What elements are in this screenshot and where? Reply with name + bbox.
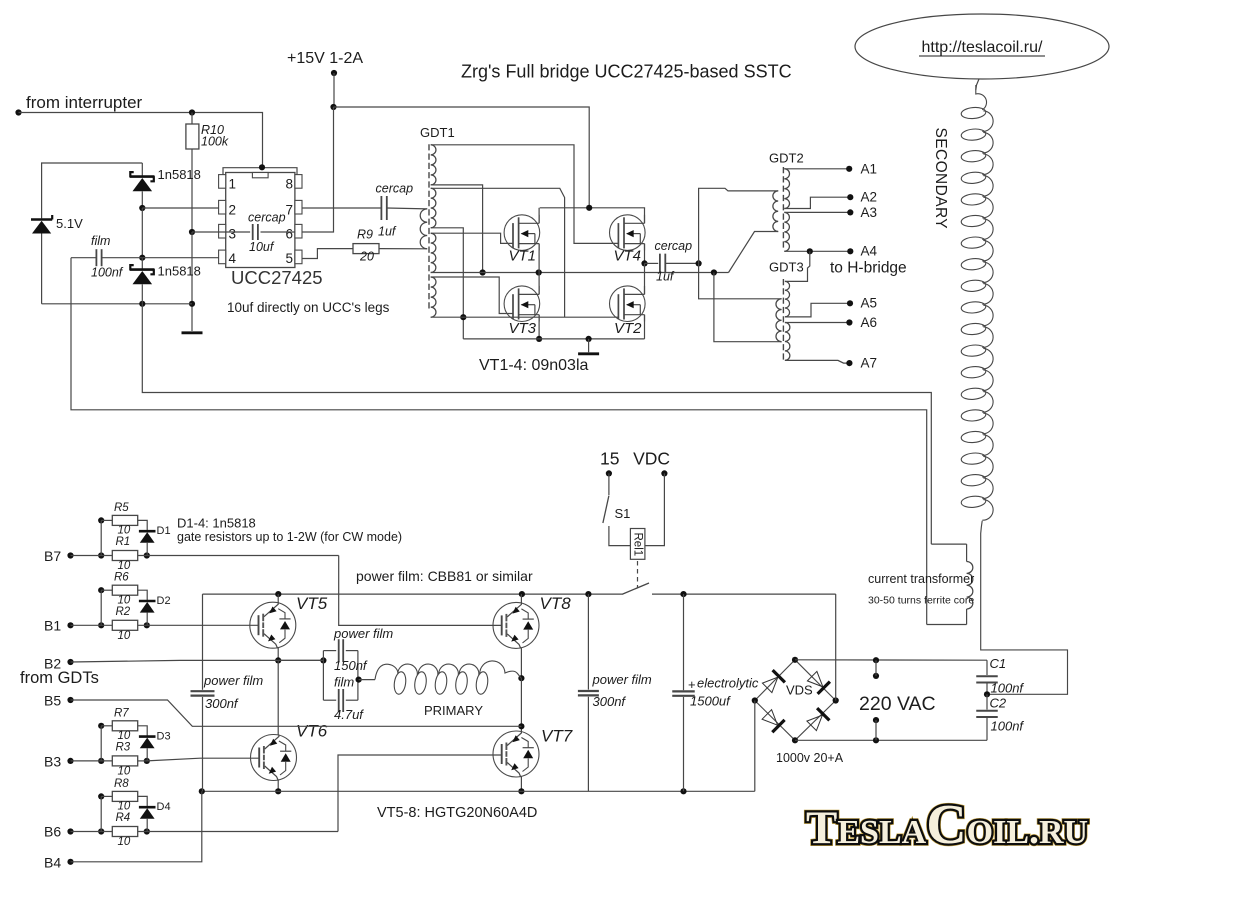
wire B2 row xyxy=(71,660,324,662)
wire W1 bottom xyxy=(431,185,483,273)
label UCC27425 xyxy=(231,267,323,288)
svg-text:100nf: 100nf xyxy=(991,681,1025,696)
node VT6 emitter rail xyxy=(275,788,281,794)
node diode-string bottom xyxy=(139,301,145,307)
node 15V right xyxy=(661,470,667,476)
svg-text:B6: B6 xyxy=(44,824,61,840)
svg-text:S1: S1 xyxy=(615,506,631,521)
switch S1 xyxy=(603,473,631,545)
node electrolytic top xyxy=(680,591,686,597)
svg-text:10: 10 xyxy=(118,801,131,813)
capacitor cercap 10uf internal xyxy=(226,224,295,240)
node A3 xyxy=(847,209,853,215)
diode 1n5818 upper xyxy=(130,163,155,208)
label B4 xyxy=(44,855,61,871)
capacitor cercap 1uf bridge xyxy=(645,254,699,274)
wire zener bottom row xyxy=(42,303,192,305)
transformer GDT2 core xyxy=(782,167,784,251)
transformer GDT2 sec W2 xyxy=(784,212,789,251)
wire VT8 collector xyxy=(520,594,522,603)
inductor PRIMARY xyxy=(375,661,521,695)
node +15V terminal xyxy=(331,70,337,76)
relay Rel1 box xyxy=(630,529,645,560)
svg-text:10: 10 xyxy=(118,836,131,848)
wire relay dashed xyxy=(637,561,639,588)
label cercap pin7 xyxy=(376,182,414,196)
wire VDS right up xyxy=(835,594,837,700)
label R10 xyxy=(201,123,224,137)
svg-text:GDT3: GDT3 xyxy=(769,260,804,275)
label A7 xyxy=(861,356,878,371)
svg-text:VT5-8: HGTG20N60A4D: VT5-8: HGTG20N60A4D xyxy=(377,805,537,821)
label VT2 xyxy=(614,320,642,337)
label 100nf C2 xyxy=(991,719,1025,734)
node ground tap xyxy=(586,336,592,342)
node +15V junction xyxy=(330,104,336,110)
label VT4 xyxy=(614,248,642,265)
svg-text:PRIMARY: PRIMARY xyxy=(424,703,483,718)
label 300nf left xyxy=(205,696,239,711)
node 15V left xyxy=(606,470,612,476)
node electrolytic bottom xyxy=(680,788,686,794)
wire A5 xyxy=(785,303,850,317)
wire pin2 row xyxy=(142,207,219,209)
node powerfilm top xyxy=(585,591,591,597)
wire phase to box xyxy=(278,659,323,661)
svg-text:A3: A3 xyxy=(861,205,878,220)
wire VT6 emitter xyxy=(277,780,279,791)
svg-text:R1: R1 xyxy=(116,536,131,548)
svg-text:B4: B4 xyxy=(44,855,61,871)
node AC bot a xyxy=(873,737,879,743)
svg-text:A7: A7 xyxy=(861,356,878,371)
transistor Q VT6 xyxy=(251,735,297,781)
svg-text:10: 10 xyxy=(118,560,131,572)
ground bridge xyxy=(578,352,599,355)
wire W3 top to VT1 gate xyxy=(431,233,514,243)
node ground row junction xyxy=(189,301,195,307)
wire CT upper feedback xyxy=(142,304,931,544)
label http teslacoil xyxy=(919,39,1045,56)
label GDT1 xyxy=(420,125,455,140)
wire cercap to GDT3 primary top xyxy=(699,263,782,298)
wire VT4 source to cercap xyxy=(644,244,646,264)
svg-text:3: 3 xyxy=(229,227,237,242)
resistor group R6 R2 diode D2 xyxy=(98,572,170,642)
node VT1 source xyxy=(536,269,542,275)
wire DC+ rail left xyxy=(203,593,624,595)
svg-text:+: + xyxy=(688,677,696,692)
node B5 xyxy=(67,697,73,703)
svg-text:1000v 20+A: 1000v 20+A xyxy=(776,751,844,765)
label 300nf right xyxy=(593,694,627,709)
wire pin5 jog xyxy=(302,249,353,259)
wire CT right bottom xyxy=(966,609,968,625)
label from interrupter xyxy=(26,93,143,112)
label VT7 xyxy=(541,727,573,746)
label 100k xyxy=(201,135,229,149)
label 1n5818 lower xyxy=(158,264,201,279)
label from GDTs xyxy=(20,669,99,687)
node R10 top junction xyxy=(189,109,195,115)
wire A6 xyxy=(785,322,850,324)
ground near UCC xyxy=(182,331,203,334)
svg-text:100nf: 100nf xyxy=(991,719,1025,734)
wire CT right top xyxy=(966,544,968,561)
label plus xyxy=(688,677,696,692)
diode 1n5818 lower xyxy=(130,258,155,304)
transformer GDT1 sec W2 xyxy=(431,188,436,228)
svg-text:D3: D3 xyxy=(157,730,171,742)
svg-text:cercap: cercap xyxy=(248,210,286,224)
wire DC- rail xyxy=(202,790,755,792)
svg-text:power film: power film xyxy=(592,672,652,687)
wire CT bottom edge xyxy=(927,624,967,626)
node DC- left xyxy=(199,788,205,794)
resistor group R8 R4 diode D4 xyxy=(98,778,170,848)
svg-text:B7: B7 xyxy=(44,548,61,564)
diode bridge VDS xyxy=(755,660,836,741)
svg-text:cercap: cercap xyxy=(376,182,414,196)
wire W2 top xyxy=(431,188,565,317)
label VT1-4 09n03la xyxy=(479,357,589,374)
svg-text:R6: R6 xyxy=(114,572,129,584)
note 10uf directly xyxy=(227,300,390,315)
wire AC top rail xyxy=(795,659,987,661)
svg-text:C1: C1 xyxy=(990,656,1007,671)
wire ground stub xyxy=(588,339,590,352)
svg-text:A6: A6 xyxy=(861,315,878,330)
svg-text:1uf: 1uf xyxy=(656,270,675,284)
label GDT2 xyxy=(769,151,804,166)
transformer GDT3 primary xyxy=(776,299,782,342)
label 100nf xyxy=(91,266,124,280)
label VDS xyxy=(786,683,813,698)
label 15 VDC xyxy=(600,449,670,469)
svg-text:VDS: VDS xyxy=(786,683,813,698)
svg-text:1uf: 1uf xyxy=(378,225,397,239)
node A4 junction xyxy=(807,248,813,254)
svg-text:B5: B5 xyxy=(44,693,61,709)
label current transformer xyxy=(868,572,974,586)
svg-text:VT1-4: 09n03la: VT1-4: 09n03la xyxy=(479,357,589,374)
label 1uf pin7 xyxy=(378,225,397,239)
wire A3 xyxy=(784,211,850,213)
wire DC+ rail right xyxy=(652,593,836,595)
wire from interrupter to UCC top xyxy=(19,113,263,168)
wire right leg mid xyxy=(520,678,522,731)
label A2 xyxy=(861,190,878,205)
label B7 xyxy=(44,548,61,564)
svg-text:R2: R2 xyxy=(116,606,131,618)
pin numbers 1-8 xyxy=(229,177,294,266)
label cercap internal xyxy=(248,210,286,224)
node bridge +15 tap xyxy=(586,205,592,211)
wire W4 bottom to VT2 gate xyxy=(431,316,619,318)
label VT5-8 HGTG xyxy=(377,805,537,821)
svg-text:10uf: 10uf xyxy=(249,240,275,254)
transistor Q VT7 xyxy=(493,731,539,777)
wire W2 bottom xyxy=(431,228,464,339)
svg-text:from GDTs: from GDTs xyxy=(20,669,99,687)
wire W1 top to VT4 gate xyxy=(431,145,619,244)
label VT6 xyxy=(296,722,328,741)
wire A2 xyxy=(784,197,850,208)
svg-text:power film: power film xyxy=(333,626,393,641)
label turns ferrite xyxy=(868,595,974,607)
label cercap bridge xyxy=(655,239,693,253)
svg-text:R9: R9 xyxy=(357,228,373,242)
svg-text:A5: A5 xyxy=(861,296,878,311)
wire A7 xyxy=(785,360,850,363)
svg-text:10: 10 xyxy=(118,730,131,742)
svg-text:GDT1: GDT1 xyxy=(420,125,455,140)
transistor Q VT5 xyxy=(250,602,296,648)
wire A1 xyxy=(784,168,849,170)
svg-text:D4: D4 xyxy=(157,801,171,813)
wire B3 row xyxy=(71,758,260,761)
wire tap to GDT3 primary bottom xyxy=(714,273,782,342)
svg-text:VT6: VT6 xyxy=(296,722,328,741)
note gate resistors xyxy=(177,530,402,544)
node phase right primary xyxy=(518,675,524,681)
svg-text:10uf directly on UCC's legs: 10uf directly on UCC's legs xyxy=(227,300,390,315)
wire B4 row xyxy=(71,791,202,862)
svg-text:GDT2: GDT2 xyxy=(769,151,804,166)
label power film left xyxy=(203,673,263,688)
svg-text:Zrg's Full bridge UCC27425-bas: Zrg's Full bridge UCC27425-based SSTC xyxy=(461,62,792,82)
resistor group R5 R1 diode D1 xyxy=(98,502,170,572)
label 4.7uf xyxy=(334,707,364,722)
wire B6 row xyxy=(71,831,339,833)
wire secondary bottom xyxy=(981,521,1068,695)
node pin2 junction xyxy=(139,205,145,211)
svg-text:4.7uf: 4.7uf xyxy=(334,707,364,722)
svg-text:C2: C2 xyxy=(990,696,1007,711)
transistor Q VT8 xyxy=(493,602,539,648)
svg-text:R7: R7 xyxy=(114,707,129,719)
note D1-4 1n5818 xyxy=(177,516,256,531)
svg-text:6: 6 xyxy=(286,227,294,242)
node B6 xyxy=(67,828,73,834)
node phase left xyxy=(275,657,281,663)
capacitor C2 xyxy=(976,694,998,740)
transistor Q VT1 xyxy=(504,215,540,251)
wire B5 row xyxy=(71,700,522,726)
label B2 xyxy=(44,656,61,672)
label C2 xyxy=(990,696,1007,711)
node GDT3 tap xyxy=(711,269,717,275)
label to H-bridge xyxy=(830,260,907,277)
node B4 xyxy=(67,859,73,865)
svg-text:to H-bridge: to H-bridge xyxy=(830,260,907,277)
svg-text:D1: D1 xyxy=(157,525,171,537)
label 150nf xyxy=(334,658,368,673)
wire pin7 row xyxy=(302,207,381,209)
label VT5 xyxy=(296,594,328,613)
label VT1 xyxy=(509,248,537,265)
node box left xyxy=(320,657,326,663)
svg-text:10: 10 xyxy=(118,594,131,606)
svg-text:gate resistors up to 1-2W (for: gate resistors up to 1-2W (for CW mode) xyxy=(177,530,402,544)
wire CT lower feedback xyxy=(71,258,927,625)
svg-text:cercap: cercap xyxy=(655,239,693,253)
label 1n5818 upper xyxy=(158,167,201,182)
label 1uf bridge xyxy=(656,270,675,284)
wire AC top pair xyxy=(875,660,877,676)
svg-text:300nf: 300nf xyxy=(205,696,239,711)
svg-text:R3: R3 xyxy=(116,741,131,753)
transformer GDT2 sec W1 xyxy=(784,169,789,209)
node AC top a xyxy=(873,657,879,663)
label power film right xyxy=(592,672,652,687)
wire VT8 emitter xyxy=(520,648,522,678)
label VT8 xyxy=(540,594,572,613)
wire +15V rail to bridge xyxy=(334,107,590,208)
svg-text:5: 5 xyxy=(286,251,294,266)
wire mid rail diagonal to GDT2 primary bottom xyxy=(729,232,779,273)
wire W4 top to VT3 gate xyxy=(431,277,514,314)
node A7 xyxy=(846,360,852,366)
label SECONDARY xyxy=(932,128,949,230)
svg-text:power film: CBB81 or similar: power film: CBB81 or similar xyxy=(356,568,533,584)
svg-text:D2: D2 xyxy=(157,595,171,607)
label B1 xyxy=(44,618,61,634)
svg-text:1n5818: 1n5818 xyxy=(158,264,201,279)
svg-text:VT2: VT2 xyxy=(614,320,642,337)
label power film box xyxy=(333,626,393,641)
svg-text:20: 20 xyxy=(359,250,374,264)
node VT4 source xyxy=(641,260,647,266)
wire B7 row xyxy=(71,555,339,557)
svg-text:150nf: 150nf xyxy=(334,658,368,673)
node VDS left xyxy=(752,697,758,703)
label A4 xyxy=(861,244,878,259)
transformer GDT3 sec W1 xyxy=(785,281,790,317)
transformer GDT1 sec W4 xyxy=(431,277,436,317)
op-amp U1 UCC27425 body xyxy=(219,168,302,268)
node pin3 junction xyxy=(189,229,195,235)
wire A4 xyxy=(784,250,850,252)
capacitor 150nf xyxy=(339,639,344,662)
transformer GDT1 primary xyxy=(420,209,427,249)
svg-text:2: 2 xyxy=(229,202,237,217)
label 1000v 20+A xyxy=(776,751,844,765)
node VT8 collector tap xyxy=(519,591,525,597)
node UCC top junction xyxy=(259,164,265,170)
node AC bot b xyxy=(873,717,879,723)
node VDS right xyxy=(833,697,839,703)
node pin4 junction xyxy=(139,255,145,261)
label B3 xyxy=(44,754,61,770)
wire VDS left down xyxy=(754,701,756,792)
wire VT7 emitter xyxy=(520,777,522,792)
capacitor C1 xyxy=(976,660,998,694)
svg-text:film: film xyxy=(334,675,354,690)
capacitor 4.7uf xyxy=(339,689,344,712)
label film xyxy=(91,234,110,248)
transistor Q VT3 xyxy=(504,286,540,322)
node B1 xyxy=(67,622,73,628)
label 5.1V xyxy=(56,216,83,231)
svg-text:+15V 1-2A: +15V 1-2A xyxy=(287,50,363,67)
label GDT3 xyxy=(769,260,804,275)
wire B7 to VT8 gate xyxy=(339,556,502,626)
ellipse teslacoil.ru xyxy=(855,14,1109,79)
wire R10 to ground xyxy=(191,232,193,331)
node B7 xyxy=(67,552,73,558)
label CBB81 note xyxy=(356,568,533,584)
node W4 bottom junction xyxy=(460,314,466,320)
label 1500uf xyxy=(690,694,731,709)
svg-text:100k: 100k xyxy=(201,135,229,149)
node A1 xyxy=(846,166,852,172)
svg-text:1500uf: 1500uf xyxy=(690,694,731,709)
wire B6 to VT7 gate xyxy=(338,755,502,832)
node VDS bottom xyxy=(792,737,798,743)
wire AC bottom rail xyxy=(795,739,987,741)
svg-text:R5: R5 xyxy=(114,502,129,514)
svg-text:1n5818: 1n5818 xyxy=(158,167,201,182)
wire VT1 drain xyxy=(538,208,540,224)
capacitor power film 300nf right xyxy=(578,594,599,791)
svg-text:power film: power film xyxy=(203,673,263,688)
transformer GDT1 sec W3 xyxy=(431,233,436,272)
svg-text:1: 1 xyxy=(229,177,237,192)
svg-text:220 VAC: 220 VAC xyxy=(859,693,936,715)
label electrolytic xyxy=(697,676,759,691)
svg-text:7: 7 xyxy=(286,202,294,217)
wire bridge top rail xyxy=(540,207,645,209)
node box right xyxy=(356,677,362,683)
svg-text:4: 4 xyxy=(229,251,237,266)
svg-text:100nf: 100nf xyxy=(91,266,124,280)
svg-text:SECONDARY: SECONDARY xyxy=(932,128,949,230)
svg-text:electrolytic: electrolytic xyxy=(697,676,759,691)
wire pin4 row right xyxy=(142,257,219,259)
svg-text:VT1: VT1 xyxy=(509,248,537,265)
label C1 xyxy=(990,656,1007,671)
resistor group R7 R3 diode D3 xyxy=(98,707,170,777)
node B3 xyxy=(67,758,73,764)
label A1 xyxy=(861,161,878,176)
logo TeslaCoil.ru xyxy=(806,794,1088,856)
wire VT6 collector xyxy=(277,660,279,734)
svg-text:VT3: VT3 xyxy=(509,320,537,337)
label A5 xyxy=(861,296,878,311)
svg-text:Rel1: Rel1 xyxy=(631,533,643,557)
transformer GDT1 core xyxy=(428,144,430,310)
capacitor film 100nf xyxy=(71,249,142,266)
label VT3 xyxy=(509,320,537,337)
svg-text:VT4: VT4 xyxy=(614,248,642,265)
node VT3 source rail xyxy=(536,336,542,342)
svg-text:VT7: VT7 xyxy=(541,727,573,746)
node VT7 emitter rail xyxy=(518,788,524,794)
wire AC bot pair xyxy=(875,720,877,740)
node AC top b xyxy=(873,673,879,679)
wire VT4 drain xyxy=(644,208,646,224)
svg-text:R8: R8 xyxy=(114,778,129,790)
capacitor electrolytic 1500uf xyxy=(672,594,695,791)
svg-text:10: 10 xyxy=(118,765,131,777)
wire box to primary xyxy=(359,679,375,681)
transistor Q VT2 xyxy=(610,286,646,322)
label PRIMARY xyxy=(424,703,483,718)
svg-text:5.1V: 5.1V xyxy=(56,216,83,231)
svg-text:VT5: VT5 xyxy=(296,594,328,613)
svg-text:VT8: VT8 xyxy=(540,594,572,613)
